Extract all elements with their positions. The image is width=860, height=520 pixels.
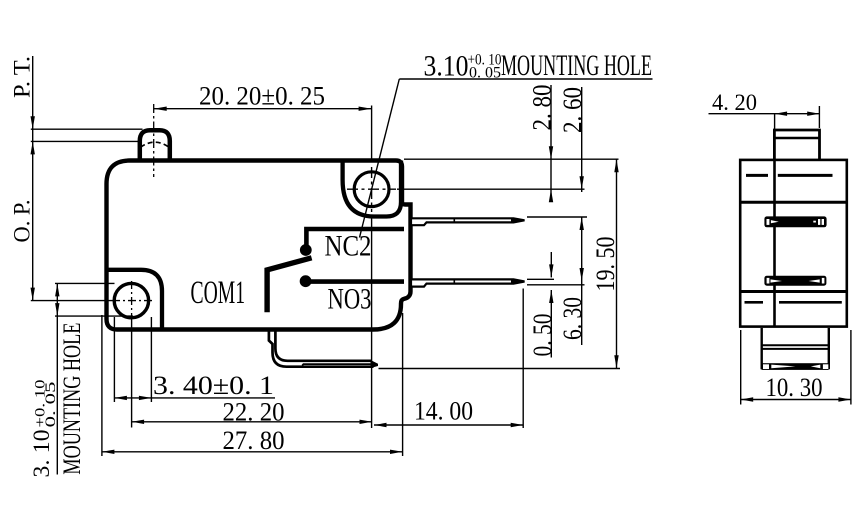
- svg-text:0. 50: 0. 50: [528, 314, 557, 357]
- terminal bracket COM1: [269, 331, 378, 368]
- bottom-left mounting hole: [114, 283, 148, 317]
- dimension 2.80: [528, 85, 557, 203]
- extension line hole top tangent: [55, 282, 115, 284]
- svg-text:14. 00: 14. 00: [414, 395, 473, 425]
- svg-text:3. 10: 3. 10: [29, 430, 55, 478]
- extension line side plunger left: [774, 114, 776, 129]
- svg-text:4. 20: 4. 20: [712, 90, 757, 115]
- extension line body left edge: [101, 315, 103, 456]
- dimension 4.20: [709, 90, 820, 116]
- dimension 0.50: [528, 252, 557, 358]
- leader line mounting hole label: [360, 79, 653, 238]
- extension line body top edge: [404, 158, 619, 160]
- dimension 19.50: [591, 159, 620, 368]
- svg-text:NO3: NO3: [328, 283, 372, 316]
- dimension 2.60: [558, 87, 587, 230]
- top-right hole horizontal center line: [347, 188, 396, 190]
- side view plunger: [774, 130, 819, 160]
- bottom-left hole horizontal center line: [31, 300, 153, 302]
- svg-text:NC2: NC2: [325, 229, 372, 262]
- terminal blade NO3: [411, 279, 525, 287]
- dimension line P.T. and O.P.: [31, 56, 35, 301]
- dimension line hole diameter: [55, 283, 59, 474]
- label 3.10 +0.10/-0.05 MOUNTING HOLE: [424, 49, 653, 83]
- switch body outline (front view): [107, 161, 411, 330]
- extension line hole right tangent: [150, 317, 152, 402]
- svg-text:27. 80: 27. 80: [223, 425, 285, 455]
- dimension 3.40 +/-0.1: [114, 370, 275, 400]
- bottom-left hole vertical center line: [131, 281, 133, 320]
- svg-text:O. P.: O. P.: [9, 200, 34, 243]
- extension line plunger top: [31, 128, 143, 130]
- extension line COM1 bracket bottom: [379, 368, 621, 370]
- svg-text:MOUNTING HOLE: MOUNTING HOLE: [501, 49, 652, 82]
- dimension 10.30: [741, 330, 851, 405]
- extension line side plunger right: [818, 106, 820, 128]
- side view case parting line: [773, 160, 776, 327]
- svg-text:2. 60: 2. 60: [558, 87, 587, 133]
- dimension 6.30: [558, 217, 587, 345]
- extension line top-right hole center vertical: [371, 106, 373, 429]
- common switch arm: [267, 258, 312, 312]
- extension line bottom-left hole center vertical: [131, 320, 133, 428]
- plunger button (front view): [140, 130, 170, 161]
- extension line NO3 blade top: [527, 278, 554, 280]
- label 3.10 +0.10/-0.05 (rotated): [29, 380, 59, 478]
- svg-text:20. 20±0. 25: 20. 20±0. 25: [199, 81, 325, 111]
- contact dot NC2: [300, 244, 312, 256]
- contact dot NO3: [300, 275, 312, 287]
- dimension 14.00: [374, 395, 523, 427]
- plunger free-position dashed arc: [141, 142, 170, 147]
- side view NO3 terminal end: [764, 276, 826, 286]
- side view lower divider line: [740, 290, 847, 293]
- svg-text:10. 30: 10. 30: [766, 372, 823, 402]
- side view COM1 terminal end: [762, 363, 829, 370]
- extension line blade tips vertical: [522, 289, 524, 429]
- top-right hole vertical center line: [371, 167, 373, 212]
- extension line top-right hole center horizontal: [397, 188, 585, 190]
- side view upper divider line: [740, 201, 847, 204]
- side view NC2 terminal end: [764, 216, 826, 227]
- wire NC2 net: [306, 229, 404, 246]
- svg-text:3. 40±0. 1: 3. 40±0. 1: [153, 370, 274, 400]
- extension line hole bottom tangent: [55, 315, 133, 317]
- extension line NC2 blade top: [527, 216, 587, 218]
- svg-text:22. 20: 22. 20: [223, 396, 285, 426]
- extension line hole left tangent: [113, 317, 115, 402]
- dimension 27.80: [102, 425, 403, 455]
- dimension 20.20 +/-0.25: [154, 81, 372, 111]
- terminal blade NC2: [411, 218, 525, 225]
- wire NO3 net: [306, 279, 404, 284]
- side view bottom block: [762, 328, 829, 369]
- side view upper groove lines: [746, 174, 833, 177]
- svg-text:3.10: 3.10: [424, 50, 469, 83]
- svg-text:0. 05: 0. 05: [469, 65, 501, 82]
- plunger center line: [153, 104, 155, 177]
- svg-text:19. 50: 19. 50: [591, 237, 620, 292]
- side view plunger cap line: [774, 137, 819, 139]
- bottom-left mounting boss: [107, 270, 163, 328]
- svg-text:MOUNTING HOLE: MOUNTING HOLE: [57, 323, 86, 475]
- svg-text:COM1: COM1: [191, 275, 246, 311]
- svg-text:2. 80: 2. 80: [528, 85, 557, 131]
- svg-text:6. 30: 6. 30: [558, 297, 587, 340]
- top-right mounting boss: [343, 161, 401, 217]
- side view case: [740, 160, 847, 327]
- dimension 22.20: [132, 396, 372, 426]
- extension line NO3 blade bottom: [527, 284, 585, 286]
- extension line plunger free position: [31, 140, 138, 142]
- side view lower groove lines: [745, 301, 842, 304]
- top-right mounting hole: [354, 172, 389, 207]
- svg-text:P. T.: P. T.: [9, 56, 34, 98]
- extension line body right edge: [402, 313, 404, 456]
